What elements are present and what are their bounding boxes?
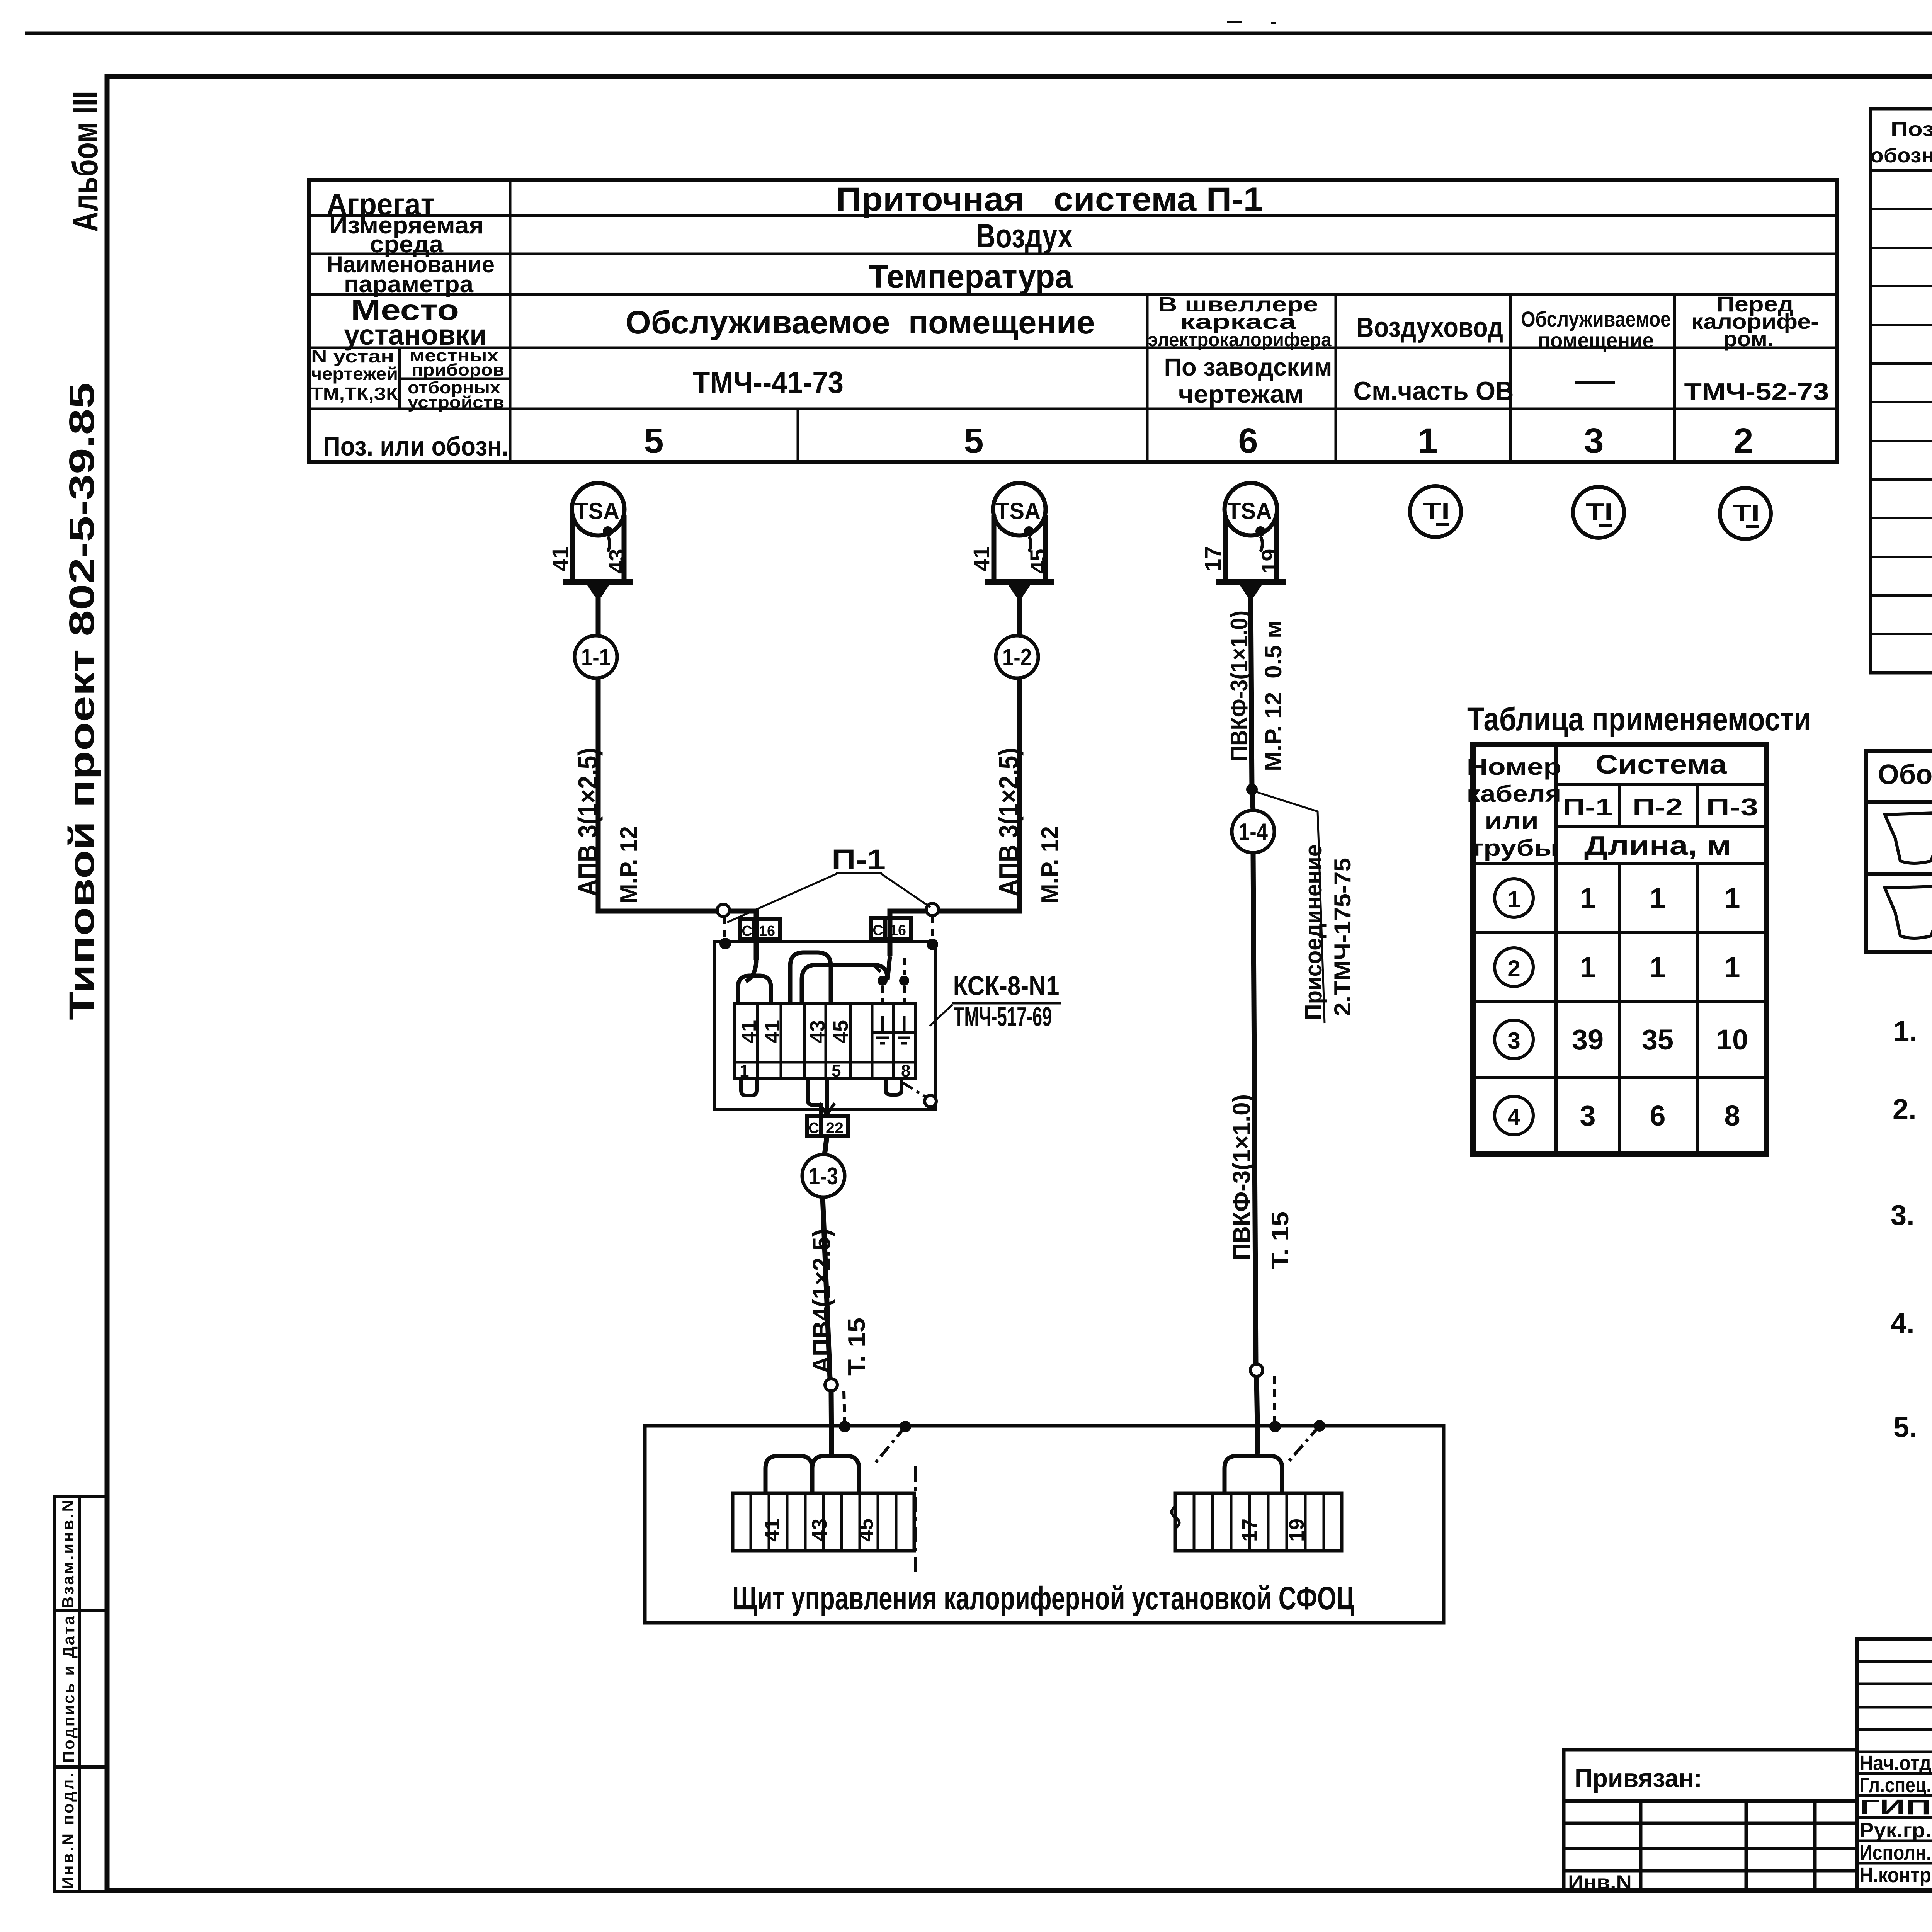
- thermometer TI3: [1720, 488, 1771, 539]
- svg-text:П-1: П-1: [1563, 794, 1613, 821]
- svg-text:электрокалорифера: электрокалорифера: [1148, 329, 1332, 350]
- svg-text:5.: 5.: [1893, 1411, 1917, 1443]
- internal wire loop B (cells 3-5): [790, 952, 831, 1003]
- svg-text:43: 43: [808, 1519, 831, 1542]
- svg-text:П-1: П-1: [832, 844, 886, 876]
- svg-text:TSA: TSA: [575, 498, 619, 524]
- svg-text:ром.: ром.: [1723, 327, 1774, 351]
- svg-text:Обслуживаемое: Обслуживаемое: [1521, 307, 1671, 331]
- svg-text:помещение: помещение: [1538, 328, 1654, 352]
- svg-text:ТМЧ-52-73: ТМЧ-52-73: [1684, 379, 1829, 405]
- parts list table grid: [1871, 109, 1932, 673]
- svg-text:TSA: TSA: [996, 498, 1041, 524]
- svg-text:Температура: Температура: [869, 258, 1073, 295]
- svg-text:Обслуживаемое помещение: Обслуживаемое помещение: [626, 304, 1095, 340]
- svg-text:П-3: П-3: [1706, 794, 1759, 821]
- svg-text:1: 1: [1580, 951, 1595, 983]
- svg-text:2: 2: [1733, 421, 1753, 461]
- svg-text:Воздух: Воздух: [976, 218, 1073, 255]
- svg-text:кабеля: кабеля: [1467, 781, 1561, 807]
- svg-text:Поз. или обозн.: Поз. или обозн.: [323, 431, 509, 461]
- svg-text:45: 45: [829, 1020, 852, 1043]
- top rule: [25, 32, 1932, 35]
- thermometer TI1: [1410, 486, 1461, 537]
- terminal strip of KCK box: [734, 1003, 915, 1079]
- scan specks above top rule: [1227, 21, 1242, 23]
- svg-text:1.: 1.: [1893, 1015, 1917, 1047]
- svg-text:М.Р. 12 0.5 м: М.Р. 12 0.5 м: [1260, 621, 1286, 771]
- wedge into C22: [819, 1103, 835, 1115]
- row cable 3: [1495, 1020, 1533, 1059]
- svg-text:41: 41: [760, 1519, 784, 1542]
- svg-text:Таблица применяемости: Таблица применяемости: [1467, 701, 1811, 737]
- svg-text:обознач: обознач: [1870, 145, 1932, 167]
- svg-text:39: 39: [1572, 1024, 1604, 1056]
- svg-text:ТМ,ТК,ЗК: ТМ,ТК,ЗК: [311, 384, 398, 404]
- svg-text:Гл.спец.: Гл.спец.: [1859, 1774, 1931, 1797]
- svg-text:6: 6: [1238, 421, 1258, 461]
- applicability table grid: [1473, 744, 1767, 1154]
- svg-text:1: 1: [1580, 882, 1595, 914]
- svg-text:ПВКФ-3(1×1.0): ПВКФ-3(1×1.0): [1228, 1094, 1255, 1260]
- svg-text:1: 1: [1650, 951, 1665, 983]
- svg-text:ПВКФ-3(1×1.0): ПВКФ-3(1×1.0): [1226, 611, 1253, 761]
- svg-text:17: 17: [1201, 546, 1226, 571]
- junction node left (open circle, dashed tap, dot): [717, 904, 730, 917]
- svg-text:Приточная система П-1: Приточная система П-1: [836, 181, 1263, 218]
- row cable 4: [1495, 1096, 1533, 1135]
- svg-text:Т. 15: Т. 15: [1267, 1211, 1294, 1269]
- svg-text:41: 41: [969, 546, 994, 571]
- entry node right of cabinet: [1250, 1364, 1263, 1376]
- svg-text:чертежам: чертежам: [1179, 380, 1304, 408]
- svg-text:или: или: [1485, 808, 1539, 834]
- svg-text:АПВ4(1×2.5): АПВ4(1×2.5): [808, 1229, 835, 1374]
- svg-text:2.: 2.: [1893, 1093, 1917, 1125]
- svg-text:16: 16: [890, 922, 906, 939]
- connector C22 bottom: [807, 1116, 848, 1136]
- svg-text:КСК-8-N1: КСК-8-N1: [953, 971, 1060, 1001]
- svg-text:Т. 15: Т. 15: [844, 1318, 870, 1376]
- svg-text:43: 43: [806, 1020, 829, 1043]
- svg-text:5: 5: [644, 421, 663, 461]
- strip2 break mark: [1172, 1507, 1179, 1528]
- bracket loops above strip1: [765, 1456, 812, 1493]
- title block outline: [1857, 1639, 1932, 1890]
- svg-text:19: 19: [1257, 549, 1282, 574]
- svg-text:8: 8: [901, 1061, 910, 1080]
- svg-text:1: 1: [1507, 886, 1520, 912]
- svg-text:1-1: 1-1: [581, 644, 611, 671]
- svg-text:3: 3: [1507, 1028, 1520, 1054]
- svg-text:ТI: ТI: [1586, 499, 1613, 526]
- cable position circle 1-3: [802, 1155, 845, 1197]
- svg-text:Обозначение: Обозначение: [1878, 759, 1932, 790]
- svg-text:4.: 4.: [1891, 1307, 1915, 1339]
- ground symbol in cell at 2340: [894, 1016, 914, 1043]
- svg-text:Нач.отд: Нач.отд: [1859, 1752, 1931, 1775]
- legend symbol row2: housing blob, line with open circle, dash-dot return: [1885, 886, 1932, 938]
- svg-text:6: 6: [1650, 1100, 1665, 1132]
- svg-text:Подпись и Дата: Подпись и Дата: [60, 1616, 78, 1763]
- svg-text:1: 1: [740, 1061, 749, 1080]
- svg-text:45: 45: [854, 1519, 878, 1542]
- temperature sensor B3: [1216, 483, 1286, 597]
- svg-text:Присоединение: Присоединение: [1300, 844, 1327, 1020]
- bracket loop above strip2: [1225, 1456, 1282, 1493]
- svg-text:С: С: [872, 922, 883, 939]
- svg-text:См.часть ОВ: См.часть ОВ: [1354, 376, 1514, 406]
- svg-text:22: 22: [826, 1120, 844, 1136]
- cable position circle 1-4: [1232, 810, 1274, 853]
- dashed taps to ground cells: [873, 965, 883, 974]
- svg-text:2: 2: [1507, 956, 1520, 981]
- svg-text:43: 43: [605, 549, 630, 574]
- svg-text:4: 4: [1507, 1104, 1520, 1130]
- dash-dot to corner circle: [901, 1082, 927, 1097]
- internal wire loop C wide from C16 right: [802, 956, 890, 1003]
- svg-text:8: 8: [1724, 1100, 1740, 1132]
- strip1 continuation dash-dot: [914, 1466, 917, 1577]
- legend table grid: [1866, 751, 1932, 952]
- svg-text:16: 16: [759, 923, 775, 939]
- junction dot and connection label 2.TMCH-175-75: [1246, 784, 1258, 795]
- svg-text:1: 1: [1724, 882, 1740, 914]
- left bottom stamp boxes: [54, 1497, 107, 1891]
- control cabinet box: [645, 1426, 1444, 1623]
- svg-text:5: 5: [832, 1061, 841, 1080]
- junction box KCK-8-N1 outline: [714, 942, 936, 1109]
- cabinet terminal strip 2: [1175, 1493, 1342, 1551]
- svg-text:С: С: [742, 923, 752, 939]
- svg-text:1-2: 1-2: [1002, 644, 1032, 671]
- entry node left of cabinet: [825, 1379, 837, 1391]
- svg-text:П-2: П-2: [1633, 794, 1683, 821]
- svg-text:АПВ 3(1×2.5): АПВ 3(1×2.5): [993, 748, 1024, 896]
- svg-text:19: 19: [1285, 1519, 1308, 1542]
- svg-text:3.: 3.: [1891, 1199, 1915, 1231]
- svg-text:Воздуховод: Воздуховод: [1356, 312, 1503, 343]
- svg-text:приборов: приборов: [412, 361, 504, 379]
- svg-text:41: 41: [737, 1020, 760, 1043]
- svg-text:Исполн.: Исполн.: [1859, 1841, 1931, 1864]
- legend symbol row1: housing blob, dot, dash-dot, stepped wire: [1885, 813, 1932, 863]
- svg-text:41: 41: [548, 546, 573, 571]
- svg-text:TSA: TSA: [1227, 498, 1272, 524]
- cable position circle 1-1: [575, 636, 617, 678]
- svg-text:10: 10: [1716, 1024, 1748, 1056]
- temperature sensor B1: [563, 483, 633, 597]
- svg-text:1-4: 1-4: [1238, 819, 1268, 845]
- temperature sensor B2: [985, 483, 1054, 597]
- internal wire loop A (cells 1-2): [738, 976, 771, 1003]
- svg-text:35: 35: [1642, 1024, 1673, 1056]
- svg-text:Номер: Номер: [1467, 754, 1561, 780]
- entry loop from C16 left: [746, 960, 756, 981]
- svg-text:3: 3: [1584, 421, 1604, 461]
- svg-text:Привязан:: Привязан:: [1575, 1764, 1702, 1793]
- svg-text:чертежей: чертежей: [311, 364, 398, 384]
- connector C16 right: [871, 918, 911, 939]
- svg-text:устройств: устройств: [408, 393, 504, 412]
- svg-text:Н.контр: Н.контр: [1859, 1864, 1931, 1887]
- svg-text:М.Р. 12: М.Р. 12: [616, 826, 642, 903]
- svg-text:17: 17: [1238, 1519, 1261, 1542]
- svg-text:По заводским: По заводским: [1164, 353, 1332, 381]
- svg-text:1: 1: [1650, 882, 1665, 914]
- svg-text:1: 1: [1418, 421, 1437, 461]
- svg-text:45: 45: [1026, 549, 1051, 574]
- svg-text:ГИП: ГИП: [1859, 1796, 1931, 1819]
- svg-text:41: 41: [761, 1020, 784, 1043]
- svg-text:Поз.: Поз.: [1891, 118, 1932, 141]
- svg-text:Альбом III: Альбом III: [66, 91, 105, 232]
- svg-text:Взам.инв.N: Взам.инв.N: [59, 1500, 77, 1608]
- svg-text:трубы: трубы: [1469, 835, 1558, 861]
- cabinet terminal strip 1: [733, 1493, 914, 1551]
- svg-text:ТI: ТI: [1733, 500, 1760, 527]
- svg-text:М.Р. 12: М.Р. 12: [1037, 826, 1063, 903]
- wire 1-1 from sensor B1 to KCK box: [598, 597, 1258, 1454]
- svg-text:Типовой проект 802-5-39.85: Типовой проект 802-5-39.85: [62, 383, 102, 1020]
- junction node right (open circle, dashed tap, dot): [926, 903, 939, 916]
- svg-text:ТI: ТI: [1423, 498, 1450, 525]
- svg-text:Рук.гр.: Рук.гр.: [1859, 1819, 1931, 1842]
- svg-text:Инв,N: Инв,N: [1568, 1871, 1632, 1893]
- connector C16 left: [740, 919, 780, 939]
- thermometer TI2: [1573, 487, 1624, 538]
- measurement header table: [309, 180, 1837, 462]
- privyazan (linked) box: [1564, 1750, 1857, 1891]
- cable position circle 1-2: [996, 636, 1038, 678]
- svg-text:АПВ 3(1×2.5): АПВ 3(1×2.5): [573, 748, 603, 896]
- svg-text:5: 5: [964, 421, 983, 461]
- svg-text:3: 3: [1580, 1100, 1595, 1132]
- svg-text:1: 1: [1724, 951, 1740, 983]
- svg-text:ТМЧ-517-69: ТМЧ-517-69: [954, 1002, 1052, 1032]
- svg-text:С: С: [808, 1120, 819, 1136]
- svg-text:Система: Система: [1595, 749, 1727, 779]
- svg-text:Щит управления калориферной ус: Щит управления калориферной установкой С…: [732, 1580, 1354, 1616]
- svg-text:2.ТМЧ-175-75: 2.ТМЧ-175-75: [1330, 858, 1355, 1016]
- svg-text:Инв.N подл.: Инв.N подл.: [59, 1773, 77, 1889]
- tabs under terminal strip: [741, 1079, 757, 1095]
- svg-text:ТМЧ--41-73: ТМЧ--41-73: [693, 365, 844, 400]
- ground symbol in cell at 2284: [872, 1016, 893, 1043]
- svg-text:1-3: 1-3: [809, 1163, 838, 1190]
- svg-text:Длина, м: Длина, м: [1584, 830, 1731, 861]
- row cable 2: [1495, 948, 1533, 986]
- row cable 1: [1495, 879, 1533, 917]
- svg-text:параметра: параметра: [344, 271, 474, 297]
